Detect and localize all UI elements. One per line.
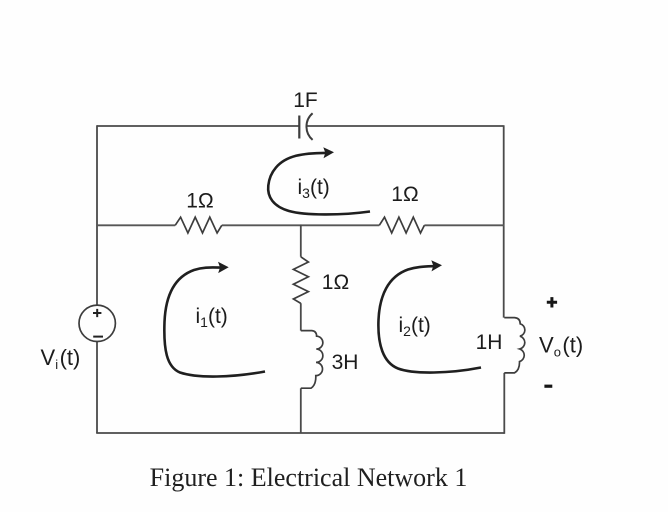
wire top-left (top rail left of capacitor) xyxy=(97,125,299,127)
label 1 ohm right xyxy=(391,183,418,206)
wire right upper (right rail above 1H inductor) xyxy=(503,125,505,317)
label Vi(t) xyxy=(41,345,81,372)
svg-text:1Ω: 1Ω xyxy=(322,271,349,294)
label i3(t) xyxy=(298,176,330,201)
svg-text:i2(t): i2(t) xyxy=(399,314,431,339)
svg-text:1H: 1H xyxy=(476,331,503,354)
svg-text:3H: 3H xyxy=(332,351,359,374)
wire left lower (left rail below source) xyxy=(96,341,98,433)
wire top-right (top rail right of capacitor) xyxy=(308,125,504,127)
voltage source Vi(t) xyxy=(79,305,115,341)
svg-text:1Ω: 1Ω xyxy=(391,183,418,206)
wire center branch upper (node to vertical resistor) xyxy=(300,225,302,257)
resistor 1ohm right (on middle rail) xyxy=(379,217,424,233)
wire middle rail center segment xyxy=(222,224,379,226)
svg-text:1F: 1F xyxy=(293,89,318,112)
mesh current arrow i2(t) xyxy=(378,260,481,372)
svg-text:Figure 1: Electrical Network 1: Figure 1: Electrical Network 1 xyxy=(150,463,468,492)
inductor 1H (on right rail) xyxy=(504,318,525,373)
label 1H xyxy=(476,331,503,354)
wire middle rail left segment xyxy=(96,224,175,226)
svg-text:i1(t): i1(t) xyxy=(196,305,228,330)
wire bottom rail xyxy=(96,432,504,434)
label i2(t) xyxy=(399,314,431,339)
wire center branch lower (3H inductor to bottom rail) xyxy=(300,388,302,433)
svg-text:Vi(t): Vi(t) xyxy=(41,345,81,372)
label 1 ohm middle xyxy=(322,271,349,294)
caption: Figure 1: Electrical Network 1 xyxy=(150,463,468,492)
wire middle rail right segment xyxy=(424,224,504,226)
capacitor 1F (curved plate) xyxy=(306,113,312,140)
label 3H xyxy=(332,351,359,374)
wire right lower (right rail below 1H inductor) xyxy=(503,373,505,434)
capacitor 1F (flat plate) xyxy=(298,116,300,139)
label 1F xyxy=(293,89,318,112)
label Vo(t) xyxy=(539,333,583,360)
svg-text:Vo(t): Vo(t) xyxy=(539,333,583,360)
label 1 ohm left xyxy=(186,190,213,213)
label plus (output polarity) xyxy=(547,297,557,307)
resistor 1ohm left (on middle rail) xyxy=(175,217,222,233)
inductor 3H (on center branch) xyxy=(301,331,323,389)
svg-text:1Ω: 1Ω xyxy=(186,190,213,213)
resistor 1ohm middle (vertical on center branch) xyxy=(293,257,308,304)
label minus (output polarity) xyxy=(544,385,552,388)
wire left upper (left rail above source) xyxy=(96,125,98,305)
label i1(t) xyxy=(196,305,228,330)
wire center branch middle (resistor to 3H inductor) xyxy=(300,303,302,330)
mesh current arrow i1(t) xyxy=(164,262,265,377)
svg-text:i3(t): i3(t) xyxy=(298,176,330,201)
mesh current arrow i3(t) xyxy=(268,147,370,214)
